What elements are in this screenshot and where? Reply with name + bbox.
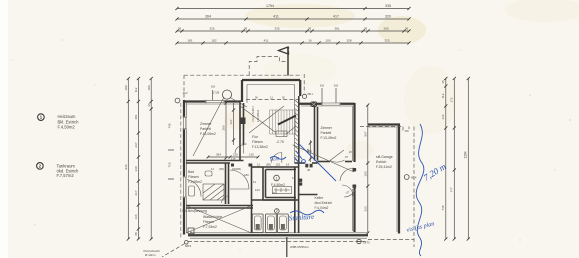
- svg-text:113: 113: [242, 142, 247, 146]
- svg-text:40.2: 40.2: [183, 91, 189, 95]
- svg-text:411: 411: [264, 38, 269, 42]
- svg-text:36: 36: [244, 26, 248, 30]
- svg-text:F.4,50m2: F.4,50m2: [58, 125, 76, 130]
- svg-text:115: 115: [249, 153, 254, 157]
- svg-text:158: 158: [346, 38, 351, 42]
- svg-text:17x17,5x28,1: 17x17,5x28,1: [251, 106, 255, 122]
- svg-text:F.4,50m2: F.4,50m2: [271, 183, 285, 187]
- svg-text:326: 326: [209, 26, 214, 30]
- svg-text:335: 335: [274, 26, 279, 30]
- svg-text:364: 364: [216, 153, 221, 157]
- svg-text:Heizraum: Heizraum: [58, 114, 76, 119]
- svg-text:180: 180: [124, 85, 128, 90]
- svg-text:745: 745: [441, 205, 445, 210]
- svg-text:411: 411: [273, 14, 279, 18]
- svg-text:1794: 1794: [266, 4, 274, 8]
- svg-text:(35): (35): [219, 167, 224, 171]
- svg-text:200: 200: [383, 26, 388, 30]
- svg-text:Zimmer: Zimmer: [321, 126, 333, 130]
- svg-text:182: 182: [211, 38, 216, 42]
- svg-text:115: 115: [233, 153, 238, 157]
- svg-text:Stahl: Stahl: [270, 156, 280, 162]
- svg-text:123: 123: [255, 188, 260, 192]
- svg-text:ökol.Estrich: ökol.Estrich: [315, 201, 333, 205]
- svg-text:12: 12: [257, 163, 261, 167]
- svg-text:381: 381: [134, 114, 138, 119]
- svg-text:Ø 40cm: Ø 40cm: [145, 253, 156, 257]
- svg-text:715: 715: [168, 162, 172, 167]
- svg-text:46: 46: [307, 168, 311, 172]
- svg-text:F.13,06m2: F.13,06m2: [200, 132, 216, 136]
- svg-text:210: 210: [272, 191, 277, 195]
- svg-text:217: 217: [134, 190, 138, 195]
- svg-text:180: 180: [147, 85, 151, 90]
- svg-text:F.7,93m2: F.7,93m2: [203, 225, 217, 229]
- svg-text:#B 1: #B 1: [308, 92, 314, 96]
- svg-text:60.4: 60.4: [411, 176, 417, 180]
- svg-text:944: 944: [124, 164, 128, 169]
- svg-text:F.25,41m2: F.25,41m2: [376, 165, 392, 169]
- svg-text:Fliesen: Fliesen: [252, 140, 263, 144]
- svg-text:777: 777: [450, 187, 454, 192]
- svg-text:Wd.Bespannung: Wd.Bespannung: [182, 209, 207, 213]
- svg-text:8,8: 8,8: [334, 84, 338, 88]
- svg-text:sift.Garage: sift.Garage: [376, 155, 393, 159]
- svg-text:115: 115: [231, 157, 236, 161]
- svg-text:Fliesen: Fliesen: [188, 175, 199, 179]
- svg-text:36: 36: [441, 80, 445, 84]
- svg-text:745: 745: [168, 123, 172, 128]
- svg-text:333: 333: [363, 206, 367, 211]
- svg-text:36: 36: [364, 26, 368, 30]
- svg-text:Parkett: Parkett: [200, 127, 211, 131]
- svg-text:W8B 05/95cm: W8B 05/95cm: [290, 245, 309, 249]
- svg-text:16: 16: [308, 38, 312, 42]
- svg-text:325: 325: [384, 38, 389, 42]
- svg-text:12: 12: [253, 180, 257, 184]
- svg-text:100: 100: [363, 171, 367, 176]
- svg-text:364: 364: [205, 14, 211, 18]
- svg-text:1: 1: [276, 176, 278, 180]
- svg-text:(35): (35): [236, 167, 241, 171]
- svg-text:W: W: [349, 150, 352, 154]
- svg-text:136: 136: [134, 214, 138, 219]
- svg-text:120: 120: [276, 163, 281, 167]
- svg-text:417: 417: [333, 14, 339, 18]
- svg-text:134: 134: [441, 114, 445, 119]
- svg-text:Keller: Keller: [315, 196, 325, 200]
- svg-text:36: 36: [405, 26, 409, 30]
- svg-text:567: 567: [363, 131, 367, 136]
- svg-text:340: 340: [134, 166, 138, 171]
- svg-text:F.13,49m2: F.13,49m2: [321, 136, 337, 140]
- svg-text:97: 97: [345, 155, 349, 159]
- svg-text:Zimmer: Zimmer: [200, 122, 212, 126]
- svg-text:11: 11: [211, 167, 214, 171]
- svg-text:36: 36: [308, 26, 312, 30]
- svg-text:2: 2: [276, 209, 278, 213]
- svg-text:F.13,38m2: F.13,38m2: [252, 145, 268, 149]
- svg-text:F.4,04m2: F.4,04m2: [315, 206, 329, 210]
- svg-text:181: 181: [187, 38, 192, 42]
- svg-text:(90): (90): [266, 163, 271, 167]
- svg-text:36: 36: [178, 26, 182, 30]
- svg-text:180: 180: [244, 173, 249, 177]
- svg-text:M8.5: M8.5: [185, 244, 192, 248]
- svg-text:F.10,66m2: F.10,66m2: [256, 109, 260, 122]
- svg-text:335: 335: [385, 4, 391, 8]
- svg-text:17,85: 17,85: [213, 91, 220, 95]
- svg-text:1873: 1873: [363, 241, 370, 245]
- svg-text:381: 381: [334, 26, 339, 30]
- svg-text:8,8: 8,8: [211, 85, 215, 89]
- svg-text:Estrich: Estrich: [376, 160, 386, 164]
- svg-text:100: 100: [325, 38, 330, 42]
- svg-text:112: 112: [441, 93, 445, 98]
- svg-text:1284: 1284: [464, 151, 468, 158]
- svg-text:Parkett: Parkett: [321, 131, 332, 135]
- svg-text:137: 137: [229, 119, 233, 124]
- svg-text:14: 14: [286, 163, 290, 167]
- svg-text:-2.75: -2.75: [276, 140, 284, 144]
- svg-text:13: 13: [292, 176, 296, 180]
- svg-text:68: 68: [134, 232, 138, 236]
- svg-text:23: 23: [299, 179, 303, 183]
- svg-text:237: 237: [134, 142, 138, 147]
- svg-text:Bad: Bad: [188, 170, 194, 174]
- svg-text:8,8: 8,8: [320, 84, 324, 88]
- svg-text:280: 280: [222, 125, 226, 130]
- svg-text:36: 36: [147, 103, 151, 107]
- svg-text:172: 172: [450, 97, 454, 102]
- svg-text:Flur: Flur: [252, 135, 259, 139]
- svg-text:112: 112: [134, 87, 138, 92]
- svg-text:320: 320: [385, 14, 391, 18]
- svg-text:F.7,57m2: F.7,57m2: [57, 173, 75, 178]
